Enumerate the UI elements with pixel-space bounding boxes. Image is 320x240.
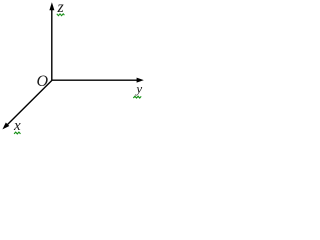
axis label x	[14, 119, 21, 134]
axis label z	[58, 0, 64, 16]
x-axis shaft (diagonal wire)	[7, 80, 52, 124]
origin label O	[37, 74, 49, 90]
green squiggle under z	[57, 14, 65, 16]
green squiggle under x	[14, 132, 20, 134]
z-axis arrowhead	[49, 2, 54, 10]
z-axis shaft (vertical wire)	[51, 10, 53, 81]
y-axis arrowhead	[137, 78, 144, 83]
axis label y	[136, 82, 142, 95]
y-axis shaft (horizontal wire)	[52, 79, 137, 81]
green squiggle under y	[133, 96, 141, 98]
x-axis arrowhead	[2, 123, 9, 130]
